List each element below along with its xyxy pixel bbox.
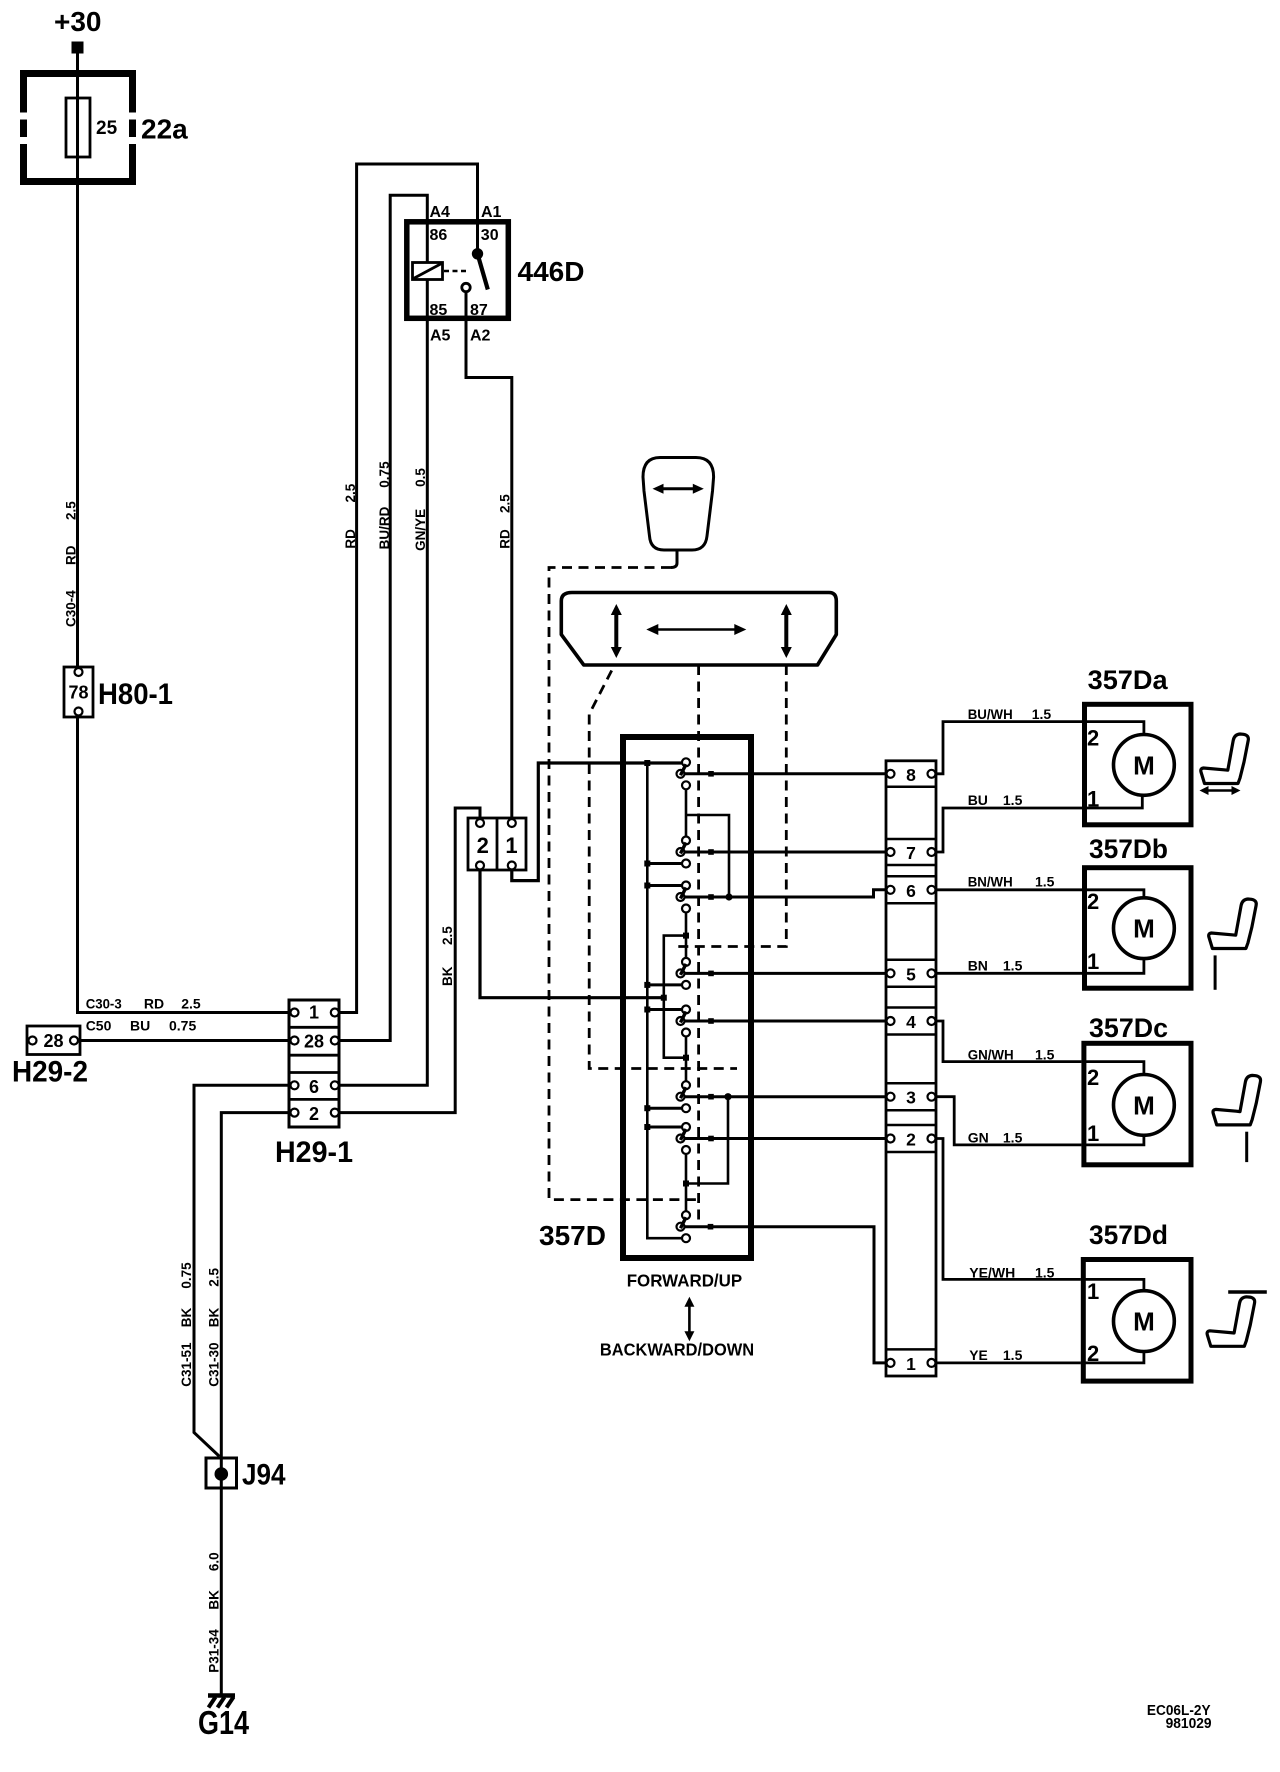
+30 supply terminal (72, 42, 83, 53)
svg-text:1: 1 (1087, 1121, 1099, 1146)
link wire S5 bottom to S6 top (685, 1037, 688, 1082)
switch unit S7 (677, 1123, 691, 1154)
seat icon 357Dc (1213, 1075, 1261, 1125)
svg-text:H29-2: H29-2 (12, 1056, 88, 1089)
motor 357Dc M circle (1114, 1075, 1175, 1136)
bezel arrow up-down right (781, 604, 792, 658)
wire C31-51 BK 0.75 from H29-1 pin6 to J94 (194, 1085, 291, 1456)
wire RD 2.5 from H29-1 pin1 to relay pin 30 (339, 164, 478, 1013)
svg-text:GN/YE: GN/YE (413, 509, 428, 551)
svg-text:2: 2 (1087, 1065, 1099, 1090)
wire S4 to strip pin 5 (685, 972, 887, 975)
svg-text:1: 1 (1087, 949, 1099, 974)
wire C50 BU 0.75 from H29-2 to H29-1 pin28 (78, 1039, 291, 1042)
strip pin circles (887, 770, 936, 1367)
dashed boundary from knob to switch left (549, 568, 700, 1200)
arrow forward/backward (684, 1297, 694, 1342)
wire label YE 1.5 (969, 1347, 1022, 1363)
motor 357Db M circle (1114, 898, 1175, 959)
wire YE/WH 1.5 strip pin2 to motor 357Dd pin1 (936, 1139, 1081, 1280)
svg-text:BACKWARD/DOWN: BACKWARD/DOWN (600, 1339, 754, 1359)
svg-text:BU: BU (130, 1018, 150, 1034)
common bus stub to S4 (647, 983, 682, 986)
svg-text:2: 2 (477, 833, 489, 858)
switch bezel panel (561, 593, 836, 666)
switch unit S1 (677, 758, 691, 789)
wire label YE/WH 1.5 (969, 1265, 1054, 1281)
svg-text:+30: +30 (54, 6, 102, 37)
svg-text:G14: G14 (198, 1704, 250, 1741)
common bus stub to S7 (647, 1126, 682, 1129)
svg-text:2: 2 (906, 1130, 916, 1150)
svg-text:M: M (1133, 750, 1155, 780)
dashed slant from bezel to switch box (589, 671, 737, 1069)
link wire S7 bottom to S8 top (685, 1154, 688, 1211)
svg-text:7: 7 (906, 843, 916, 863)
wire label BU 1.5 (968, 792, 1023, 808)
svg-text:0.5: 0.5 (413, 468, 428, 487)
svg-text:1.5: 1.5 (1003, 792, 1023, 808)
svg-text:GN: GN (968, 1130, 989, 1146)
connector H29-1 (289, 1000, 339, 1127)
svg-text:BU/WH: BU/WH (968, 706, 1013, 722)
wire S2 to strip pin 7 (685, 851, 887, 854)
seat icon 357Dd (1207, 1297, 1255, 1347)
svg-text:5: 5 (906, 964, 916, 984)
svg-text:87: 87 (470, 302, 488, 319)
svg-text:BK: BK (207, 1590, 222, 1610)
wire GN 1.5 strip pin3 to motor 357Dc pin1 (936, 1097, 1082, 1145)
rotated wire label C31-30 BK 2.5 (207, 1268, 222, 1387)
wire BU/WH 1.5 strip pin8 to motor 357Da pin2 (936, 722, 1083, 774)
switch unit S5 (677, 1006, 691, 1037)
wire label GN 1.5 (968, 1130, 1023, 1146)
svg-text:BN/WH: BN/WH (968, 873, 1013, 889)
svg-text:2: 2 (1087, 889, 1099, 914)
wire label BN 1.5 (968, 958, 1023, 974)
wire S8 to strip pin 1 (685, 1227, 887, 1363)
svg-text:RD: RD (144, 996, 164, 1012)
junction dots on pin wires (708, 771, 733, 1230)
svg-text:1.5: 1.5 (1035, 1265, 1055, 1281)
svg-text:357Dc: 357Dc (1089, 1013, 1168, 1043)
wire label BN/WH 1.5 (968, 873, 1055, 889)
svg-text:1: 1 (1087, 787, 1099, 812)
svg-text:357Da: 357Da (1088, 665, 1169, 695)
svg-text:BU/RD: BU/RD (377, 506, 392, 549)
bezel arrow left-right centre (646, 624, 746, 635)
junction squares on bypass node (661, 933, 689, 1187)
svg-text:1.5: 1.5 (1003, 1347, 1023, 1363)
relay 446D box (407, 222, 509, 318)
svg-text:6.0: 6.0 (207, 1552, 222, 1571)
svg-text:25: 25 (96, 118, 118, 139)
wire GN/YE 0.5 from relay pin 85 to H29-1 pin6 (339, 280, 427, 1085)
svg-text:1.5: 1.5 (1003, 958, 1023, 974)
svg-text:357Db: 357Db (1089, 834, 1168, 864)
svg-text:0.75: 0.75 (169, 1018, 196, 1034)
rotated wire label P31-34 BK 6.0 (207, 1552, 222, 1672)
motor 357Db internal leads (1082, 890, 1144, 974)
svg-text:2: 2 (1087, 1341, 1099, 1366)
switch unit S8 (677, 1211, 691, 1242)
seat icon 357Db (1209, 899, 1257, 949)
junction J94 (206, 1458, 237, 1488)
svg-text:P31-34: P31-34 (207, 1629, 222, 1673)
rotated wire label GN/YE 0.5 (413, 468, 428, 551)
wire C30-4 RD 2.5 from H80-1 to H29-1 pin1 (78, 716, 291, 1013)
svg-text:28: 28 (304, 1032, 324, 1052)
svg-text:1: 1 (906, 1354, 916, 1374)
svg-text:1: 1 (505, 833, 517, 858)
svg-text:981029: 981029 (1166, 1716, 1212, 1732)
ground G14 (208, 1696, 235, 1708)
svg-text:BN: BN (968, 958, 988, 974)
switch unit S6 (677, 1081, 691, 1112)
svg-text:A4: A4 (430, 204, 451, 221)
connector strip 8..1 (886, 761, 936, 1376)
connector H80-1 (64, 667, 93, 717)
wire +30 feed to fuse 22a (76, 53, 79, 668)
rotated wire label BK 2.5 (440, 926, 455, 986)
rotated wire label RD 2.5 (pin1 wire) (343, 483, 358, 548)
motor 357Da box (1085, 704, 1192, 825)
svg-text:8: 8 (906, 765, 916, 785)
wire label C50 BU 0.75 (86, 1018, 197, 1034)
wire BN/WH 1.5 strip pin6 to motor 357Db pin2 (936, 888, 1083, 891)
svg-text:RD: RD (498, 529, 513, 549)
fuse box 22a (19, 74, 137, 182)
svg-text:22a: 22a (141, 114, 188, 145)
wire from connector pin1 to switch common (512, 763, 682, 881)
common bus stub to S5 (647, 1008, 682, 1011)
svg-text:28: 28 (43, 1031, 63, 1051)
relay dashed actuator link (444, 270, 469, 273)
motor 357Db box (1085, 868, 1192, 989)
wire RD 2.5 from relay pin 87 to connector pin1 (466, 292, 512, 820)
svg-text:2.5: 2.5 (343, 483, 358, 502)
svg-text:2: 2 (309, 1104, 319, 1124)
rotated wire label RD 2.5 (relay 87 wire) (498, 494, 513, 549)
motor 357Dc box (1084, 1043, 1191, 1165)
bypass wire S3 node down to S5/S6 node (664, 936, 686, 1058)
loop wire S1/S2 node to pin6 wire (686, 815, 729, 897)
svg-text:M: M (1133, 914, 1155, 944)
svg-text:6: 6 (906, 881, 916, 901)
svg-text:1.5: 1.5 (1003, 1130, 1023, 1146)
svg-text:3: 3 (906, 1088, 916, 1108)
svg-text:YE: YE (969, 1347, 988, 1363)
knob arrow left-right (653, 484, 704, 494)
svg-text:357D: 357D (539, 1220, 606, 1251)
svg-text:1: 1 (1087, 1279, 1099, 1304)
svg-text:0.75: 0.75 (179, 1262, 194, 1289)
common bus stub to S6 (647, 1107, 682, 1110)
svg-text:C50: C50 (86, 1018, 112, 1034)
dashed line bezel-center to switch (697, 665, 700, 1226)
fuse element 25 (66, 98, 90, 157)
svg-text:A1: A1 (481, 204, 502, 221)
svg-text:GN/WH: GN/WH (968, 1047, 1014, 1063)
svg-text:357Dd: 357Dd (1089, 1220, 1168, 1250)
wire GN/WH 1.5 strip pin4 to motor 357Dc pin2 (936, 1021, 1082, 1062)
wire YE 1.5 strip pin1 to motor 357Dd pin2 (936, 1362, 1081, 1365)
junction squares on common bus (644, 760, 650, 1130)
svg-text:H29-1: H29-1 (275, 1136, 353, 1169)
motor 357Dd box (1083, 1260, 1191, 1382)
svg-text:RD: RD (64, 545, 79, 565)
link wire S3 bottom to S4 top (685, 913, 688, 958)
common bus stub to S3 (647, 884, 682, 887)
svg-text:30: 30 (481, 227, 499, 244)
svg-text:BK: BK (207, 1307, 222, 1327)
wire BU 1.5 strip pin7 to motor 357Da pin1 (936, 808, 1083, 852)
switch common bus line (647, 763, 682, 1238)
svg-text:A2: A2 (470, 328, 491, 345)
wire BU/RD 0.75 from H29-1 pin28 to relay pin 86 (339, 195, 427, 1040)
motor 357Da internal leads (1082, 722, 1144, 808)
rotated wire label C31-51 BK 0.75 (179, 1262, 194, 1387)
svg-text:C30-4: C30-4 (64, 590, 79, 627)
svg-text:446D: 446D (518, 256, 585, 287)
motor 357Dd M circle (1114, 1291, 1175, 1352)
svg-text:2.5: 2.5 (440, 926, 455, 945)
knob stem (671, 550, 677, 568)
svg-text:YE/WH: YE/WH (969, 1265, 1015, 1281)
svg-text:M: M (1133, 1090, 1155, 1120)
link wire S1 bottom to S2 top (685, 789, 688, 836)
switch unit S3 (677, 882, 691, 913)
switch unit S4 (677, 958, 691, 989)
wire BN 1.5 strip pin5 to motor 357Db pin1 (936, 972, 1083, 975)
svg-text:2.5: 2.5 (64, 501, 79, 520)
svg-text:FORWARD/UP: FORWARD/UP (627, 1270, 743, 1290)
wire S7 to strip pin 2 (685, 1137, 887, 1140)
svg-text:6: 6 (309, 1077, 319, 1097)
wire from connector pin2 to switch node (480, 870, 661, 998)
wire S6 to strip pin 3 (685, 1095, 887, 1098)
wire label BU/WH 1.5 (968, 706, 1052, 722)
loop wire S7/S8 node to pin3 wire (686, 1100, 728, 1184)
svg-text:1: 1 (309, 1003, 319, 1023)
connector 2|1 (468, 818, 526, 870)
svg-text:0.75: 0.75 (377, 461, 392, 488)
relay coil (413, 263, 443, 280)
svg-text:A5: A5 (430, 328, 451, 345)
svg-text:2.5: 2.5 (181, 996, 201, 1012)
svg-text:86: 86 (430, 227, 448, 244)
wire P31-34 BK 6.0 from J94 to ground G14 (220, 1474, 223, 1694)
svg-text:C31-30: C31-30 (207, 1343, 222, 1387)
switch unit S2 (677, 837, 691, 868)
seat icon 357Da (1200, 734, 1249, 795)
wire BK 2.5 from H29-1 pin2 to connector pin2 (339, 808, 480, 1113)
svg-text:BU: BU (968, 792, 988, 808)
switch box 357D (623, 737, 751, 1258)
svg-text:2.5: 2.5 (498, 494, 513, 513)
wire label GN/WH 1.5 (968, 1047, 1055, 1063)
motor 357Da M circle (1114, 735, 1175, 796)
joystick knob (643, 458, 714, 551)
bezel arrow up-down left (611, 604, 622, 658)
svg-text:H80-1: H80-1 (98, 678, 173, 711)
motor 357Dc internal leads (1081, 1062, 1144, 1145)
rotated wire label C30-4 RD 2.5 (64, 501, 79, 627)
wire S3 to strip pin 6 (685, 890, 887, 897)
svg-text:J94: J94 (242, 1458, 286, 1491)
svg-text:RD: RD (343, 529, 358, 549)
svg-text:78: 78 (68, 683, 88, 703)
dashed line bezel-right to switch (672, 665, 786, 947)
wire S1 to strip pin 8 (685, 772, 887, 775)
svg-text:BK: BK (179, 1307, 194, 1327)
relay switch arm (462, 249, 488, 292)
wire label C30-3 RD 2.5 (86, 996, 201, 1012)
svg-text:2: 2 (1087, 726, 1099, 751)
svg-text:1.5: 1.5 (1035, 873, 1055, 889)
common bus stub to S2 (647, 862, 682, 865)
connector H29-2 (27, 1026, 80, 1055)
svg-text:1.5: 1.5 (1035, 1047, 1055, 1063)
svg-text:85: 85 (430, 302, 448, 319)
svg-text:1.5: 1.5 (1032, 706, 1052, 722)
svg-text:C30-3: C30-3 (86, 996, 122, 1012)
svg-text:C31-51: C31-51 (179, 1342, 194, 1387)
svg-text:BK: BK (440, 966, 455, 986)
svg-text:2.5: 2.5 (207, 1268, 222, 1287)
wire C31-30 BK 2.5 from H29-1 pin2 to J94 (221, 1113, 290, 1459)
svg-text:M: M (1133, 1307, 1155, 1337)
rotated wire label BU/RD 0.75 (377, 461, 392, 549)
motor 357Dd internal leads (1081, 1279, 1144, 1363)
wire S5 to strip pin 4 (685, 1020, 887, 1023)
svg-text:4: 4 (906, 1012, 916, 1032)
